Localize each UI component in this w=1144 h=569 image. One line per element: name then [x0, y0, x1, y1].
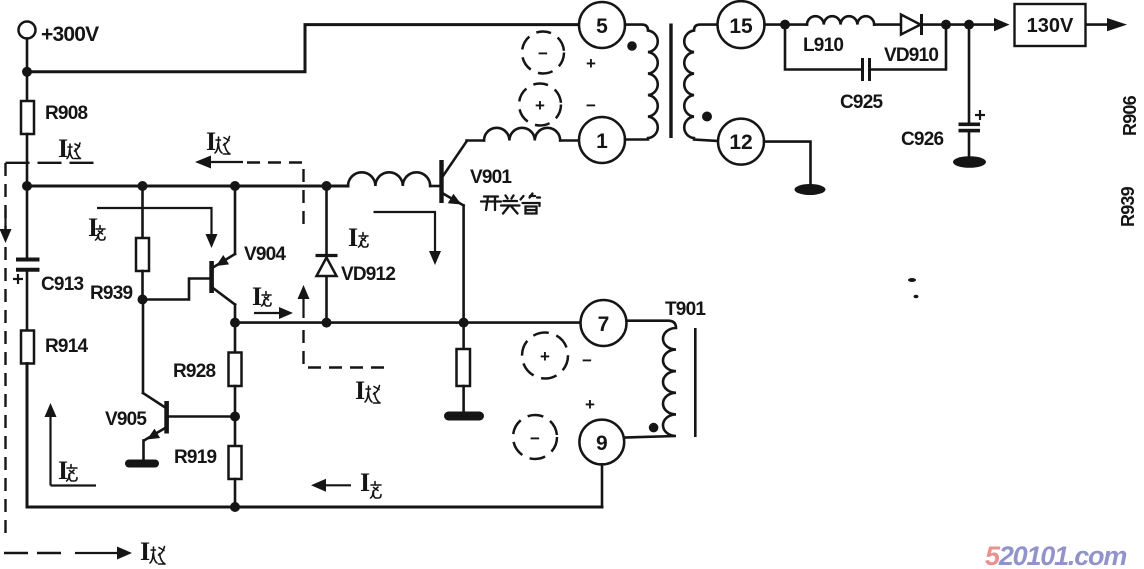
- terminal pin 12: [718, 119, 764, 165]
- svg-text:V904: V904: [244, 244, 286, 265]
- wire C913 to R914: [26, 270, 29, 331]
- dashed loop top-left horizontal: [6, 162, 98, 164]
- wire middle horizontal net: [235, 321, 581, 324]
- wire +300V bus to transformer pin5: [27, 25, 579, 72]
- label I chong near V901: [348, 223, 368, 252]
- wire L910 to VD910: [874, 23, 901, 26]
- transistor V905: [143, 393, 169, 441]
- dashed circle minus top: [522, 32, 564, 74]
- svg-text:C925: C925: [840, 92, 883, 113]
- wire winding to V901 base: [430, 185, 439, 188]
- capacitor C925: [863, 58, 870, 81]
- resistor R919: [229, 446, 242, 479]
- svg-text:7: 7: [598, 313, 610, 336]
- node L910 left: [780, 20, 790, 30]
- svg-text:T901: T901: [665, 299, 706, 320]
- arrow I chong bottom mid pointing left: [311, 479, 351, 492]
- transformer primary winding: [625, 25, 658, 140]
- wire node to R919: [234, 417, 237, 447]
- wire V904 emitter up to bus: [234, 186, 237, 254]
- inductor L910: [807, 16, 874, 24]
- svg-text:I: I: [348, 223, 358, 252]
- dashed connector to mid loop: [247, 163, 304, 228]
- wire R908 to main bus: [26, 134, 29, 186]
- svg-text:R939: R939: [1118, 186, 1138, 227]
- svg-text:1: 1: [596, 130, 608, 153]
- wire node to V905 collector: [142, 300, 145, 394]
- wire main bus: [27, 185, 348, 188]
- transformer secondary winding: [684, 25, 718, 141]
- label I chong near V904: [252, 282, 271, 311]
- wire V901 emitter down: [462, 206, 465, 323]
- resistor R939: [136, 238, 149, 271]
- arrow down on left dashed loop: [0, 210, 12, 243]
- wire R914 to bottom bus: [27, 364, 602, 508]
- ink speck upper: [908, 278, 916, 282]
- inductor V901 base winding: [348, 172, 430, 186]
- dashed discharge loop left vertical: [4, 163, 6, 536]
- svg-text:5: 5: [596, 15, 608, 38]
- wire C925 to node: [871, 25, 946, 70]
- svg-text:−: −: [530, 429, 540, 448]
- svg-text:−: −: [586, 96, 596, 115]
- svg-text:+: +: [586, 54, 596, 73]
- wire pin9 to bottom bus: [601, 464, 604, 507]
- resistor R914: [21, 331, 34, 364]
- arrow into 130V box: [994, 18, 1010, 31]
- terminal +300V input: [19, 22, 36, 39]
- transformer T901 winding: [625, 321, 676, 438]
- svg-text:V905: V905: [105, 409, 147, 430]
- label I chong bottom-left: [58, 456, 77, 485]
- diode VD910: [901, 14, 922, 35]
- arrow I chong up mid: [298, 285, 310, 318]
- wire node to C913: [26, 186, 29, 259]
- wire R939 to node: [141, 271, 144, 300]
- node bus V904: [230, 181, 240, 191]
- box 130V: [1015, 4, 1086, 46]
- phasing dot T901: [649, 423, 659, 433]
- dashed circle plus bottom: [522, 333, 568, 379]
- wire V904 base path: [143, 279, 211, 300]
- svg-text:L910: L910: [803, 35, 843, 56]
- svg-text:I: I: [252, 282, 262, 311]
- capacitor C925 loop left wire: [785, 25, 861, 70]
- label I fang top-left: [58, 134, 81, 163]
- label I fang mid: [355, 376, 380, 405]
- svg-text:VD910: VD910: [884, 45, 938, 66]
- svg-text:+: +: [585, 395, 595, 414]
- T901 core: [694, 328, 697, 437]
- svg-text:R906: R906: [1120, 95, 1140, 136]
- inductor V901 collector winding: [484, 128, 560, 141]
- phasing dot secondary: [702, 112, 712, 122]
- wire V905 emitter to ground: [142, 441, 145, 461]
- node R939 bottom: [138, 295, 148, 305]
- ground pin12: [795, 184, 826, 195]
- wire C926 to ground: [968, 132, 971, 157]
- diode VD912 vertical wire: [325, 186, 328, 323]
- svg-text:−: −: [538, 44, 548, 63]
- svg-text:+: +: [535, 96, 545, 115]
- svg-text:R928: R928: [173, 361, 215, 382]
- wire R939 branch: [141, 186, 144, 238]
- wire node to emitter resistor: [462, 323, 465, 349]
- svg-text:C913: C913: [41, 274, 83, 295]
- arrow I fang bottom pointing right: [75, 547, 132, 560]
- node bus left: [22, 181, 32, 191]
- wire R928 to node: [234, 386, 237, 417]
- wire VD910 to arrow: [923, 23, 995, 26]
- svg-text:I: I: [360, 468, 370, 497]
- svg-text:+300V: +300V: [41, 23, 99, 46]
- wire node to R928: [234, 323, 237, 353]
- svg-text:R939: R939: [90, 283, 132, 304]
- transformer core: [669, 24, 672, 139]
- node V901 emitter net: [459, 318, 469, 328]
- wire node to C926: [968, 25, 971, 123]
- ground V905: [125, 460, 159, 468]
- resistor R908: [21, 101, 34, 134]
- svg-text:I: I: [140, 537, 150, 566]
- terminal pin 5: [579, 2, 625, 48]
- resistor under V901: [457, 349, 471, 386]
- diode VD912: [316, 256, 338, 277]
- arrow I chong near V901: [374, 212, 442, 265]
- svg-text:9: 9: [596, 432, 608, 455]
- capacitor C913: [16, 260, 40, 270]
- resistor R928: [229, 353, 242, 387]
- ground C926: [953, 156, 986, 168]
- wire R919 to bottom bus: [234, 479, 237, 507]
- terminal pin 9: [579, 420, 624, 465]
- node under terminal: [22, 67, 32, 77]
- wire resistor to ground: [462, 386, 465, 412]
- wire winding to pin1: [560, 139, 579, 142]
- node bottom bus: [230, 502, 240, 512]
- ink speck lower: [914, 295, 919, 299]
- terminal pin 7: [581, 300, 627, 346]
- label 开关管: [481, 194, 540, 214]
- svg-text:520101.com: 520101.com: [985, 541, 1126, 569]
- node C925 right: [941, 20, 951, 30]
- arrow I chong near R939: [97, 208, 218, 248]
- svg-text:V901: V901: [470, 167, 512, 188]
- node bus R939: [138, 181, 148, 191]
- terminal pin 1: [579, 117, 625, 163]
- polarity plus C913: [13, 274, 23, 284]
- dashed circle minus bottom: [513, 415, 557, 459]
- wire terminal to node: [26, 39, 29, 72]
- transistor V901: [439, 142, 466, 206]
- transistor V904: [209, 254, 235, 305]
- node VD912 bottom: [322, 318, 332, 328]
- label I fang mid-top: [206, 127, 230, 156]
- dashed circle plus top: [519, 84, 561, 126]
- wire pin12 to ground: [764, 142, 811, 185]
- arrow 130V output: [1107, 18, 1127, 31]
- svg-text:−: −: [582, 351, 592, 370]
- node bus VD912: [322, 181, 332, 191]
- terminal pin 15: [718, 1, 765, 48]
- wire node to R908: [26, 72, 29, 101]
- wire V905 base: [169, 415, 236, 418]
- svg-text:I: I: [355, 376, 365, 405]
- arrow I chong right near V904: [254, 307, 293, 319]
- ground under V901: [444, 412, 484, 421]
- svg-text:12: 12: [729, 131, 752, 154]
- svg-text:130V: 130V: [1027, 15, 1074, 37]
- dashed mid loop lower: [304, 330, 392, 368]
- svg-text:+: +: [540, 347, 550, 366]
- svg-text:C926: C926: [901, 129, 943, 150]
- svg-text:R914: R914: [45, 336, 88, 357]
- label I fang bottom: [140, 537, 165, 566]
- arrow I chong bottom-left: [45, 403, 97, 486]
- svg-text:I: I: [206, 127, 216, 156]
- wire V904 collector down to node: [234, 305, 237, 323]
- svg-text:VD912: VD912: [341, 264, 395, 285]
- wire pin15 to L910: [765, 23, 808, 26]
- wire V901 collector horizontal: [467, 139, 485, 142]
- dashed bottom discharge horizontal: [4, 552, 68, 554]
- capacitor C926: [959, 123, 981, 133]
- svg-text:R919: R919: [174, 447, 216, 468]
- label I chong bottom mid: [360, 468, 381, 498]
- node R928 R919 junction: [230, 412, 240, 422]
- node V904 collector: [230, 318, 240, 328]
- polarity plus C926: [975, 110, 985, 120]
- svg-text:15: 15: [729, 15, 753, 38]
- node C926 top: [964, 20, 974, 30]
- label I chong near R939: [88, 213, 105, 242]
- phasing dot primary: [627, 41, 637, 51]
- arrow I fang mid-top pointing left: [195, 156, 243, 169]
- wire 130V output: [1086, 23, 1109, 26]
- svg-text:R908: R908: [45, 103, 87, 124]
